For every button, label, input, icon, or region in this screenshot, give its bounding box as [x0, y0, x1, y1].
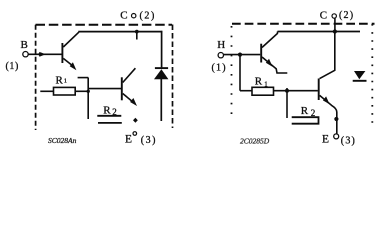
svg-text:SC028An: SC028An: [48, 136, 77, 145]
transistor Q1 (left) emitter: [63, 58, 72, 65]
resistor R2 (left) bottom line: [98, 122, 122, 124]
diode D1 (left) cathode bar: [155, 67, 168, 69]
junction dot on rail (right): [333, 29, 337, 33]
emitter junction dot (right): [334, 117, 338, 121]
transistor Q2 (right) emitter arrowhead: [323, 96, 330, 104]
dashed package box (left circuit) left edge: [35, 25, 37, 130]
svg-text:(3): (3): [141, 135, 157, 146]
svg-text:(1): (1): [212, 62, 227, 73]
wire B to Q1 base (right): [224, 54, 261, 56]
transistor Q1 (right) emitter arrowhead: [266, 59, 273, 67]
diode D2 (right) cathode bar: [353, 80, 367, 82]
transistor Q1 (left) base bar: [61, 43, 63, 63]
diode D1 (left) triangle: [154, 69, 168, 79]
svg-text:(3): (3): [341, 136, 356, 147]
terminal C circle (right): [332, 14, 336, 18]
svg-text:R: R: [301, 105, 309, 117]
transistor Q1 (left) collector: [63, 32, 79, 47]
terminal B (left) circle: [23, 52, 28, 57]
svg-text:H: H: [217, 39, 225, 51]
transistor Q2 (left) emitter: [123, 94, 132, 102]
svg-text:(1): (1): [6, 61, 19, 72]
junction dot on R1 wire (right): [285, 89, 289, 93]
svg-text:1: 1: [64, 78, 67, 85]
stub below rail dot (left): [136, 32, 138, 40]
dotted right border (right circuit): [371, 24, 373, 126]
resistor R2 (left) top line: [97, 115, 121, 117]
resistor R1 (right) right wire to Q2 base: [274, 90, 318, 92]
transistor Q2 (left) emitter arrowhead: [130, 98, 137, 106]
transistor Q2 (left) collector: [123, 68, 136, 82]
transistor Q1 (left) emitter arrowhead: [70, 62, 77, 70]
dashed package box (left circuit) right edge: [172, 25, 174, 129]
junction dot on rail (left): [135, 30, 139, 34]
top rail C (left): [78, 31, 162, 33]
top rail C (right): [278, 31, 361, 33]
vertical from dot down to R2 (right): [286, 88, 288, 118]
resistor R1 (left) left wire: [40, 90, 53, 92]
svg-text:C: C: [320, 10, 327, 22]
resistor R1 (left) right wire: [75, 90, 88, 92]
transistor Q2 (left) base bar: [121, 77, 123, 100]
vertical wire from B junction down to R1 (right): [239, 55, 241, 91]
wire node to Q2 base (left): [88, 88, 121, 90]
wire B to Q1 base (left): [28, 53, 61, 55]
svg-text:E: E: [322, 134, 329, 146]
junction dot R1/node (left): [87, 90, 90, 93]
terminal C connector vertical (right): [334, 18, 336, 31]
svg-text:E: E: [125, 133, 132, 145]
resistor R2 (right) body (open left): [292, 117, 319, 124]
transistor Q2 (right) collector vertical to rail: [320, 32, 335, 79]
dashed top border (right circuit): [232, 23, 375, 25]
Q1 emitter jog wire (left): [78, 77, 89, 79]
svg-text:B: B: [21, 39, 28, 51]
transistor Q1 (right) emitter: [262, 57, 287, 73]
current arrow on B wire (left): [39, 52, 46, 57]
transistor Q2 (right) emitter: [320, 95, 337, 134]
dotted left border (right circuit): [231, 26, 233, 116]
svg-text:2C0285D: 2C0285D: [240, 137, 270, 146]
diode D1 (left) anode line down: [160, 79, 162, 121]
transistor Q1 (right) base bar: [260, 44, 262, 63]
resistor R1 (right) left wire: [240, 90, 252, 92]
svg-text:R: R: [56, 74, 64, 86]
transistor Q1 (right) collector: [262, 32, 278, 48]
terminal C circle (left): [132, 14, 136, 18]
svg-text:C: C: [120, 9, 127, 21]
diode D2 (right) triangle pointing down: [354, 71, 365, 79]
terminal E circle (right): [334, 134, 339, 139]
svg-text:(2): (2): [339, 10, 354, 21]
resistor R1 (left) body: [54, 87, 76, 95]
svg-text:R: R: [255, 76, 263, 88]
node vertical line (left): [87, 78, 89, 119]
terminal B (right) circle: [218, 53, 223, 58]
terminal E degree circle (left): [133, 132, 137, 136]
resistor R1 (right) body: [252, 87, 274, 95]
junction dot on B wire (right): [238, 53, 242, 57]
svg-text:R: R: [103, 105, 111, 117]
transistor Q2 (right) base bar: [318, 79, 320, 101]
svg-text:(2): (2): [140, 11, 156, 22]
dashed package box (left circuit) top edge: [36, 24, 173, 26]
rail right vertical to diode (left): [161, 31, 163, 68]
emitter node dot (left): [133, 118, 138, 123]
